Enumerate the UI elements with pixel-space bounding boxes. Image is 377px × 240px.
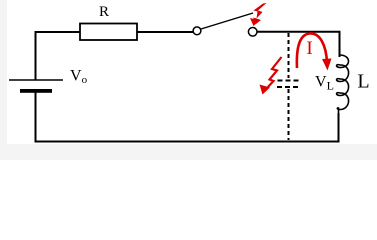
wire: battery top to resistor (top-left horizontal + left vertical drop) bbox=[36, 32, 81, 80]
wire: inductor bottom to bottom wire, back to battery bbox=[36, 92, 339, 142]
label VL (voltage across inductor) bbox=[315, 74, 334, 93]
spark at switch (red lightning bolt arrow) bbox=[250, 3, 267, 26]
spark at capacitor (red lightning bolt arrow) bbox=[260, 57, 282, 95]
svg-text:R: R bbox=[99, 4, 109, 20]
current arrow I (red arc with arrowhead) bbox=[297, 33, 332, 70]
wire: resistor to switch left contact bbox=[137, 31, 193, 33]
switch S1 (open) bbox=[193, 13, 257, 36]
battery V0 bbox=[9, 68, 88, 93]
resistor R bbox=[80, 4, 137, 40]
capacitor (parasitic, dashed) bbox=[288, 33, 290, 140]
inductor L (coil) bbox=[337, 55, 349, 113]
svg-text:L: L bbox=[357, 71, 369, 93]
wire: switch right contact to top-right corner, down to inductor bbox=[257, 32, 340, 57]
svg-text:I: I bbox=[306, 38, 312, 59]
